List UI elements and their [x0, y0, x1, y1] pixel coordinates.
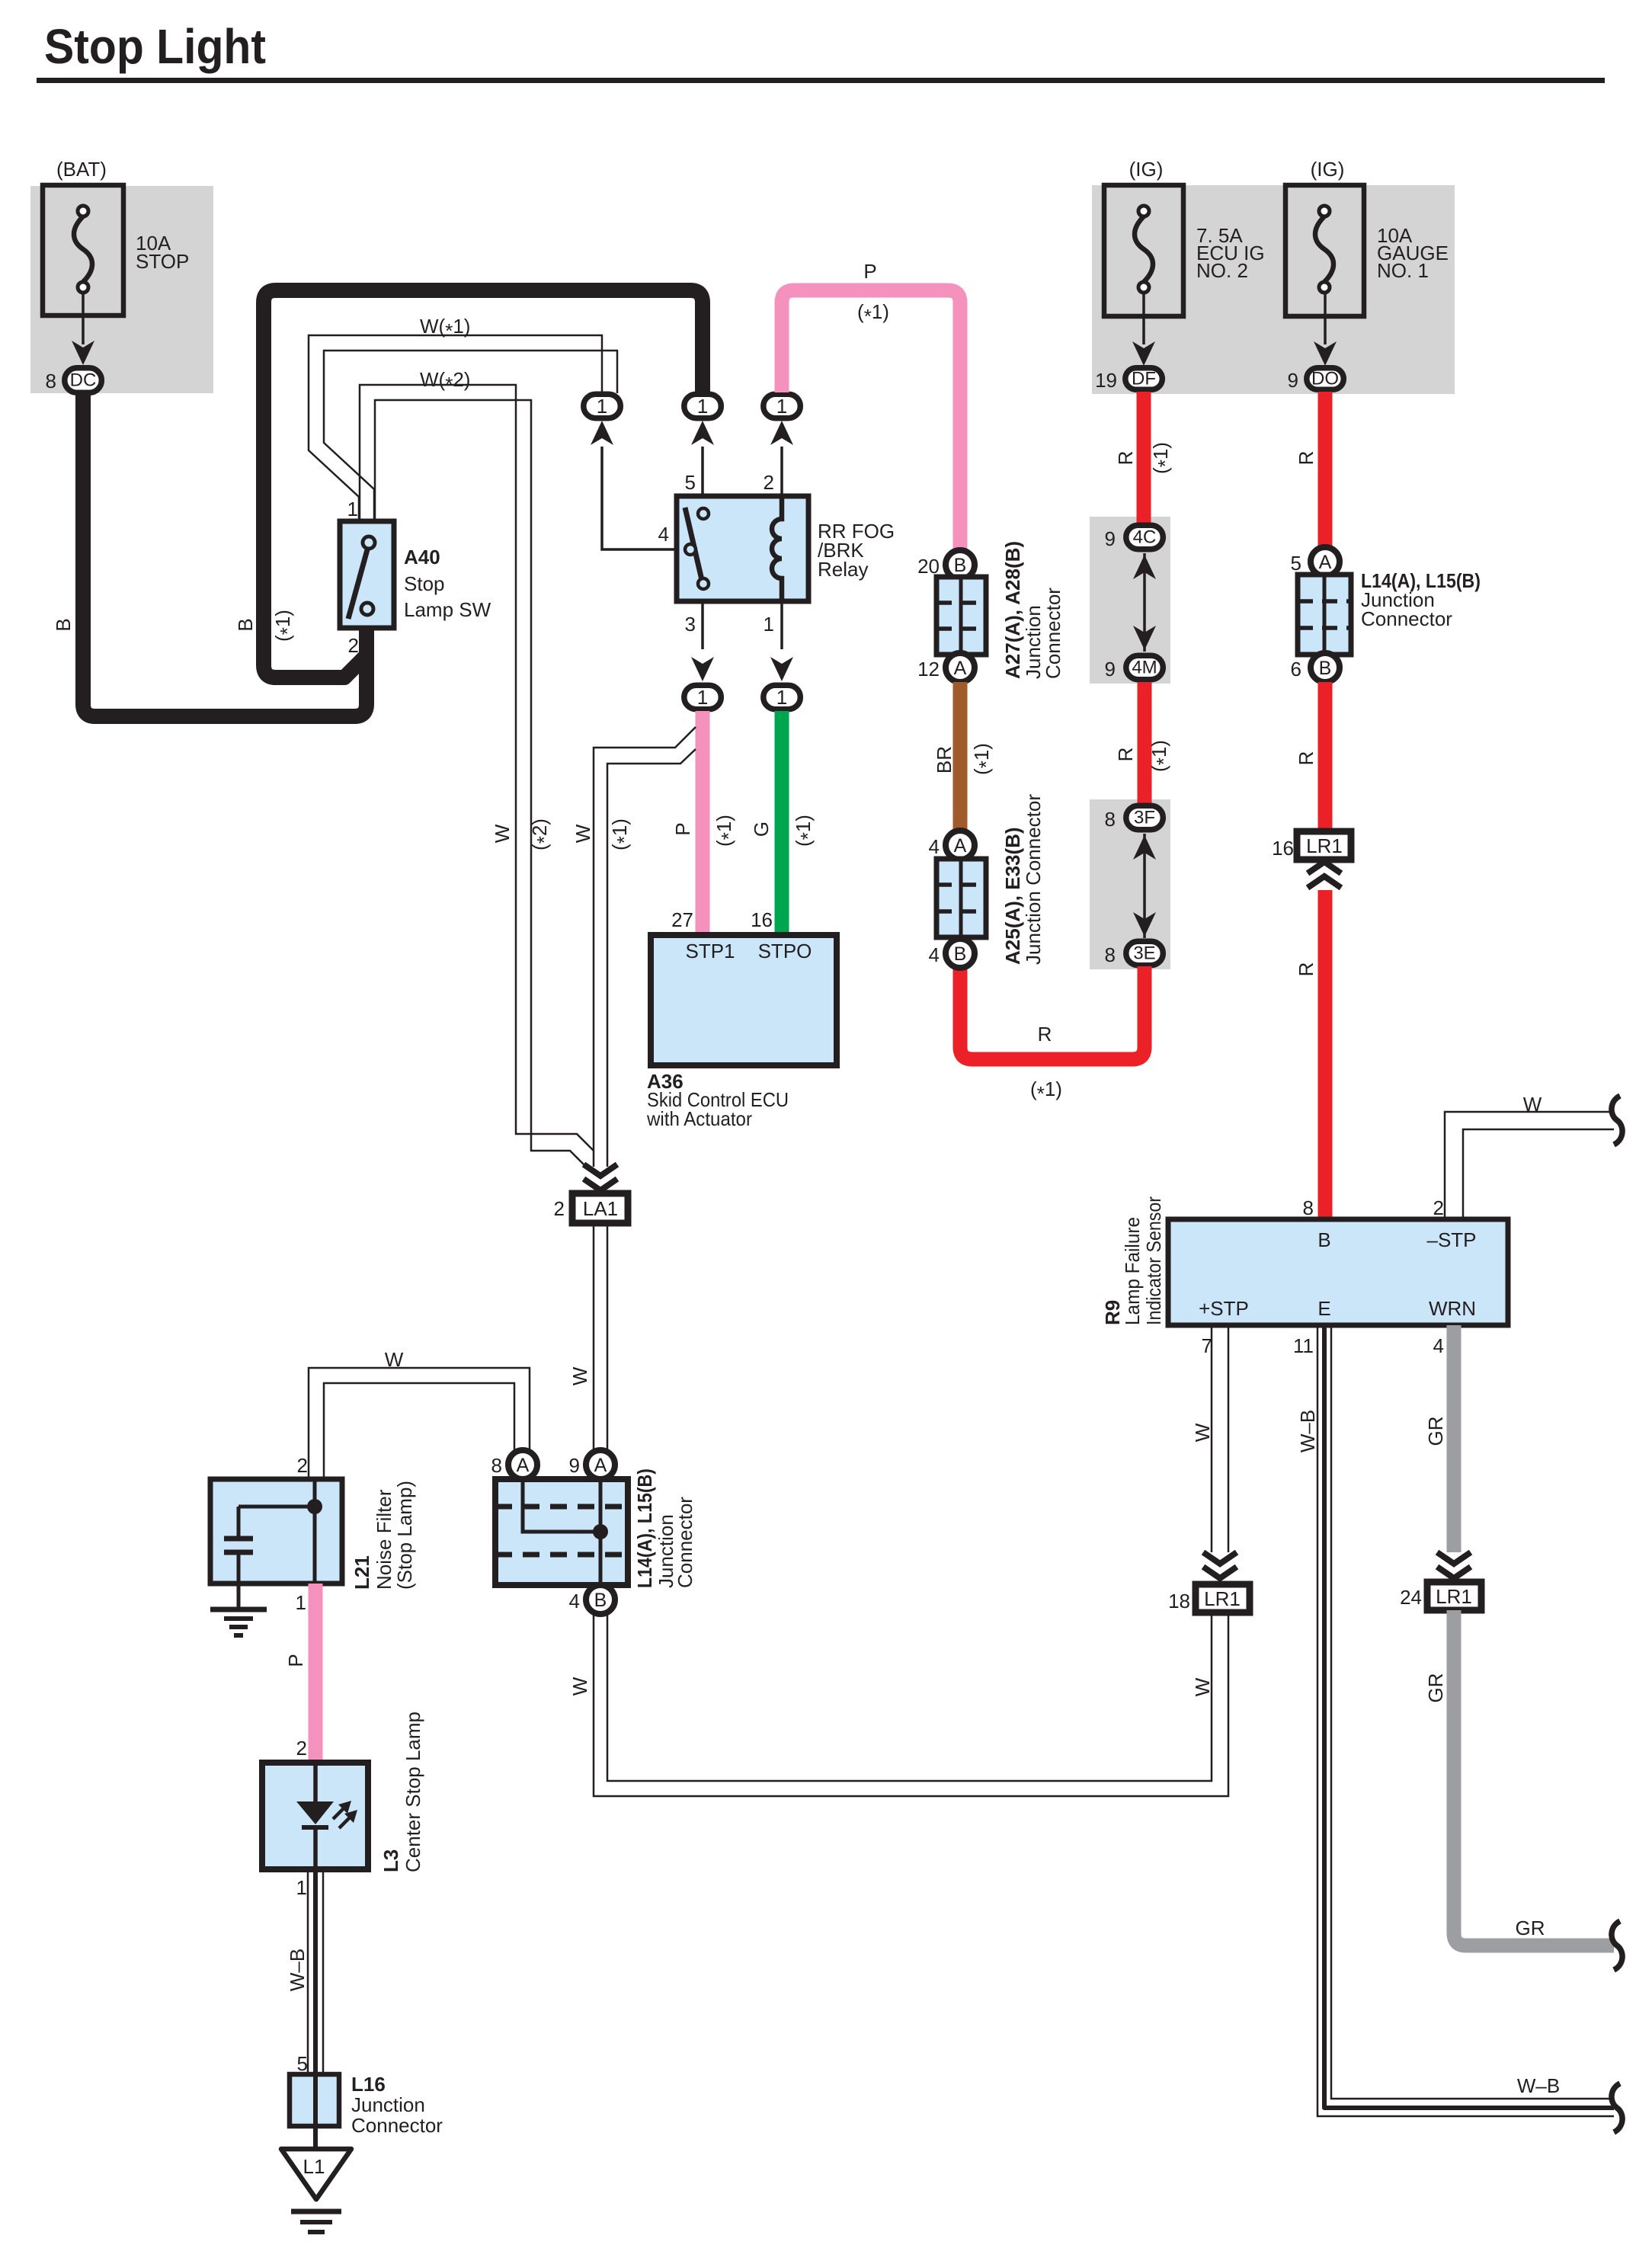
- wire R(*1) 3E to A25 pin B: [960, 966, 1145, 1059]
- svg-text:2: 2: [297, 1454, 308, 1477]
- label A25(A), E33(B) Junction Connector: [1001, 794, 1045, 965]
- svg-text:A: A: [1319, 552, 1332, 573]
- svg-text:A: A: [517, 1455, 530, 1476]
- junction connector A27(A), A28(B): [936, 577, 986, 655]
- svg-text:W: W: [1191, 1423, 1214, 1442]
- wire P(*1) relay pin3 to A36 STP1: [696, 711, 710, 937]
- fuse 10A STOP (BAT): [43, 158, 189, 315]
- label A40 Stop Lamp SW: [404, 546, 491, 621]
- svg-text:W: W: [568, 1677, 591, 1696]
- svg-text:LA1: LA1: [583, 1197, 618, 1220]
- label L14(A), L15(B) Junction Connector: [633, 1468, 696, 1588]
- wire BR(*1) A27 pin A to A25 pin A: [953, 682, 968, 832]
- svg-text:8: 8: [46, 370, 56, 392]
- svg-text:2: 2: [1433, 1196, 1444, 1219]
- svg-text:4C: 4C: [1133, 527, 1157, 548]
- svg-text:L21: L21: [351, 1555, 373, 1590]
- connector LR1 (24): [1427, 1582, 1481, 1610]
- svg-text:Connector: Connector: [674, 1497, 696, 1588]
- svg-text:8: 8: [1105, 943, 1116, 966]
- svg-text:W: W: [571, 824, 594, 843]
- svg-text:24: 24: [1400, 1586, 1422, 1609]
- wire W(*2) A40 pin 1 down to LA1: [360, 385, 594, 1167]
- connector 4M: [1126, 655, 1164, 680]
- svg-text:16: 16: [751, 908, 773, 931]
- svg-text:18: 18: [1168, 1590, 1190, 1612]
- svg-text:(*1): (*1): [1148, 740, 1175, 772]
- svg-text:4: 4: [1433, 1334, 1444, 1357]
- wire GR LR1 24 to right break: [1454, 1610, 1614, 1946]
- ground symbol L21: [210, 1609, 267, 1635]
- svg-text:(Stop Lamp): (Stop Lamp): [393, 1481, 416, 1590]
- svg-text:1: 1: [296, 1876, 307, 1899]
- svg-text:(*1): (*1): [608, 818, 636, 850]
- svg-text:STPO: STPO: [758, 940, 812, 962]
- wire R(*1) 4M to 3F: [1138, 682, 1152, 805]
- wire connector to relay pin 5: [701, 447, 704, 496]
- svg-text:Stop: Stop: [404, 572, 445, 595]
- svg-text:2: 2: [764, 471, 774, 494]
- label L16 Junction Connector: [351, 2073, 443, 2137]
- svg-text:Connector: Connector: [1361, 607, 1452, 630]
- svg-text:W: W: [491, 824, 514, 843]
- svg-text:R: R: [1295, 751, 1317, 766]
- svg-text:Center Stop Lamp: Center Stop Lamp: [402, 1712, 424, 1872]
- svg-text:(IG): (IG): [1129, 158, 1164, 181]
- svg-text:L1: L1: [303, 2155, 325, 2178]
- noise filter L21 (Stop Lamp): [210, 1479, 342, 1608]
- svg-text:3F: 3F: [1134, 808, 1155, 828]
- wire break symbol W: [1612, 1096, 1622, 1145]
- svg-text:4M: 4M: [1132, 658, 1157, 678]
- svg-text:B: B: [954, 555, 967, 576]
- svg-text:LR1: LR1: [1436, 1585, 1472, 1608]
- connector 4C: [1126, 525, 1164, 549]
- svg-text:W: W: [385, 1348, 404, 1371]
- svg-text:R: R: [1114, 451, 1137, 466]
- svg-text:R: R: [1295, 451, 1317, 466]
- svg-text:19: 19: [1095, 369, 1117, 392]
- svg-text:GR: GR: [1516, 1917, 1545, 1939]
- fuse 10A GAUGE NO.1 (IG): [1285, 158, 1449, 316]
- terminal 4B L15: [586, 1585, 615, 1614]
- gray background BAT fuse block: [30, 186, 213, 393]
- svg-text:5: 5: [685, 471, 696, 494]
- wire R L14 pin 6B to LR1: [1318, 682, 1333, 833]
- svg-text:DF: DF: [1132, 369, 1156, 389]
- svg-text:4: 4: [929, 835, 940, 858]
- svg-text:A: A: [594, 1455, 607, 1476]
- svg-text:11: 11: [1293, 1334, 1314, 1357]
- connector DO: [1307, 368, 1344, 390]
- svg-text:Connector: Connector: [1042, 588, 1065, 679]
- svg-text:B: B: [1317, 1228, 1330, 1251]
- junction connector L14(A), L15(B) right: [1298, 575, 1351, 655]
- wire W L21 pin 2 to L14 pin 8A: [309, 1368, 530, 1479]
- svg-text:(BAT): (BAT): [56, 158, 107, 181]
- svg-text:1: 1: [776, 395, 787, 418]
- connector DF: [1125, 368, 1163, 390]
- wire relay pin 1 down: [780, 601, 783, 649]
- svg-text:P: P: [863, 260, 876, 283]
- wire fuse to DO: [1324, 293, 1327, 344]
- svg-text:8: 8: [491, 1454, 502, 1477]
- svg-text:L3: L3: [379, 1849, 402, 1872]
- wire R LR1 to R9 pin 8: [1318, 890, 1333, 1219]
- svg-text:4: 4: [569, 1590, 580, 1612]
- svg-text:(*1): (*1): [857, 300, 889, 328]
- wire R DO to L14 pin 5A: [1318, 392, 1333, 549]
- terminal 9A L14: [586, 1450, 615, 1479]
- junction LR1 chevron up: [1308, 862, 1341, 873]
- svg-text:–STP: –STP: [1426, 1228, 1476, 1251]
- wire L16 to ground L1: [313, 2126, 318, 2151]
- svg-text:DC: DC: [70, 370, 97, 391]
- svg-text:B: B: [594, 1590, 607, 1611]
- terminal A A27/A28: [946, 653, 975, 682]
- svg-text:DO: DO: [1311, 369, 1339, 389]
- relay RR FOG /BRK Relay: [677, 496, 808, 601]
- connector 1: [764, 394, 801, 418]
- junction connector L14(A), L15(B) bottom: [495, 1479, 628, 1585]
- connector 1: [684, 394, 722, 418]
- junction connector L16: [290, 2074, 339, 2126]
- svg-text:1: 1: [764, 613, 774, 636]
- svg-text:B: B: [52, 618, 75, 631]
- connector LA1: [572, 1193, 628, 1223]
- wire W LA1 to 9A: [594, 1223, 607, 1451]
- link 4C to 4M: [1143, 553, 1146, 652]
- junction chevron down LR1 18: [1203, 1552, 1237, 1564]
- svg-text:WRN: WRN: [1429, 1297, 1476, 1320]
- wire GR R9 pin WRN to LR1 (24): [1447, 1325, 1462, 1552]
- svg-text:2: 2: [296, 1737, 307, 1760]
- svg-text:3: 3: [685, 613, 696, 636]
- svg-text:8: 8: [1105, 808, 1116, 831]
- svg-text:A25(A), E33(B): A25(A), E33(B): [1001, 827, 1024, 965]
- svg-text:with Actuator: with Actuator: [646, 1107, 752, 1130]
- svg-text:B: B: [1319, 658, 1332, 679]
- svg-text:1: 1: [697, 686, 708, 709]
- wire W-B R9 pin E to right break: [1317, 1325, 1614, 2116]
- label R9 Lamp Failure Indicator Sensor: [1101, 1196, 1165, 1325]
- svg-text:A: A: [954, 835, 967, 857]
- wire W R9 pin 7 to LR1 (18): [1212, 1325, 1228, 1552]
- wire W LR1 18 down-left to L15 pin 4B: [594, 1614, 1228, 1796]
- svg-text:Junction Connector: Junction Connector: [1022, 794, 1045, 965]
- svg-text:(*1): (*1): [271, 610, 299, 642]
- gray background IG fuse block: [1092, 185, 1455, 394]
- svg-text:+STP: +STP: [1199, 1297, 1249, 1320]
- svg-text:4: 4: [658, 523, 669, 546]
- svg-text:6: 6: [1291, 658, 1301, 681]
- svg-text:STOP: STOP: [136, 250, 189, 273]
- terminal B A25/E33: [946, 939, 975, 968]
- terminal 8A L14: [508, 1450, 537, 1479]
- svg-text:W: W: [1191, 1677, 1214, 1696]
- wire connector to relay pin 2: [780, 447, 783, 496]
- label RR FOG /BRK Relay: [818, 520, 895, 581]
- wire break symbol W-B: [1612, 2083, 1622, 2132]
- terminal A L14/L15 right: [1311, 547, 1340, 576]
- svg-text:BR: BR: [933, 746, 956, 773]
- wire B(*1) (black) A40 pin 2 to relay pin 5 connector: [264, 290, 703, 677]
- wire break symbol GR: [1612, 1921, 1622, 1970]
- svg-text:8: 8: [1303, 1196, 1314, 1219]
- label A27(A), A28(B) Junction Connector: [1001, 541, 1065, 679]
- svg-text:1: 1: [776, 686, 787, 709]
- svg-text:9: 9: [569, 1454, 580, 1477]
- wire relay pin 3 down: [701, 601, 704, 649]
- switch A40 Stop Lamp SW: [340, 521, 394, 628]
- svg-text:W–B: W–B: [1296, 1410, 1319, 1452]
- svg-text:5: 5: [297, 2052, 308, 2075]
- svg-text:3E: 3E: [1133, 943, 1155, 964]
- svg-text:R: R: [1295, 962, 1317, 977]
- svg-text:(*1): (*1): [1149, 442, 1177, 474]
- gray background 4C/4M connector block: [1090, 517, 1170, 684]
- terminal B A27/A28: [946, 550, 975, 579]
- wire W(*1) A40 pin 1 to relay pin 4 connector: [309, 335, 617, 521]
- svg-text:NO. 2: NO. 2: [1196, 259, 1248, 282]
- label L14(A), L15(B) Junction Connector: [1361, 569, 1481, 630]
- wire P L21 to L3: [309, 1584, 323, 1764]
- link 3F to 3E: [1143, 834, 1146, 938]
- svg-text:A27(A), A28(B): A27(A), A28(B): [1001, 541, 1024, 679]
- svg-text:LR1: LR1: [1306, 834, 1343, 857]
- connector 3F: [1126, 805, 1164, 830]
- connector 1: [684, 685, 722, 709]
- label L21 Noise Filter (Stop Lamp): [351, 1481, 416, 1590]
- svg-text:Stop Light: Stop Light: [44, 20, 266, 75]
- svg-text:W–B: W–B: [1517, 2074, 1560, 2097]
- svg-text:(*1): (*1): [1030, 1078, 1062, 1105]
- svg-text:9: 9: [1105, 527, 1116, 550]
- svg-text:9: 9: [1105, 658, 1116, 681]
- svg-text:W: W: [1523, 1093, 1542, 1116]
- svg-text:STP1: STP1: [685, 940, 735, 962]
- svg-text:P: P: [671, 822, 694, 835]
- svg-text:(*1): (*1): [792, 815, 819, 847]
- svg-text:B: B: [954, 943, 967, 965]
- svg-text:B: B: [234, 618, 257, 631]
- svg-text:2: 2: [554, 1197, 565, 1220]
- svg-text:2: 2: [348, 634, 359, 657]
- svg-text:LR1: LR1: [1204, 1587, 1241, 1610]
- svg-text:GR: GR: [1424, 1417, 1447, 1446]
- svg-text:W(*2): W(*2): [420, 368, 470, 396]
- svg-text:5: 5: [1291, 552, 1301, 575]
- svg-text:(IG): (IG): [1311, 158, 1345, 181]
- wire W-B L3 to L16: [308, 1869, 323, 2074]
- wire G(*1) relay pin1 to A36 STPO: [775, 711, 789, 937]
- ECU A36 Skid Control ECU with Actuator: [651, 935, 837, 1065]
- wire R(*1) DF to 4C: [1137, 392, 1151, 524]
- label L3 Center Stop Lamp: [379, 1712, 424, 1872]
- svg-text:Lamp SW: Lamp SW: [404, 598, 491, 621]
- svg-text:12: 12: [917, 658, 940, 681]
- svg-text:E: E: [1317, 1297, 1330, 1320]
- wire connector to relay pin 4: [602, 447, 685, 549]
- lamp L3 Center Stop Lamp (LED): [262, 1763, 368, 1869]
- ground triangle L1: [281, 2149, 351, 2199]
- svg-text:27: 27: [671, 908, 693, 931]
- svg-text:P: P: [284, 1654, 307, 1667]
- svg-text:A40: A40: [404, 546, 440, 568]
- wire fuse to DF: [1142, 293, 1145, 344]
- wire W(*1) branch from pink to LA1: [594, 727, 696, 1167]
- svg-text:L16: L16: [351, 2073, 386, 2096]
- connector LR1 (16): [1297, 831, 1351, 860]
- svg-text:(*1): (*1): [712, 815, 740, 847]
- svg-text:9: 9: [1288, 369, 1298, 392]
- svg-text:NO. 1: NO. 1: [1377, 259, 1429, 282]
- svg-text:W(*1): W(*1): [420, 315, 470, 342]
- svg-text:16: 16: [1272, 837, 1294, 860]
- terminal B L14/L15 right: [1311, 653, 1340, 682]
- svg-text:Relay: Relay: [818, 558, 868, 581]
- svg-text:W: W: [568, 1366, 591, 1385]
- ground symbol L1: [291, 2211, 341, 2232]
- svg-text:1: 1: [697, 395, 708, 418]
- svg-text:4: 4: [929, 943, 940, 966]
- wire P(*1) relay pin2 connector to A27 pin B: [782, 290, 960, 552]
- junction chevron down LR1 24: [1437, 1552, 1471, 1564]
- svg-text:(*1): (*1): [970, 743, 997, 775]
- terminal A A25/E33: [946, 831, 975, 860]
- connector LR1 (18): [1196, 1584, 1250, 1612]
- connector 3E: [1126, 941, 1164, 966]
- gray background 3F/3E connector block: [1090, 799, 1170, 969]
- svg-text:A: A: [954, 658, 967, 679]
- svg-text:1: 1: [597, 395, 607, 418]
- svg-text:R: R: [1114, 748, 1137, 762]
- svg-text:1: 1: [347, 498, 358, 520]
- connector 1: [584, 394, 621, 418]
- svg-text:W–B: W–B: [286, 1949, 309, 1991]
- wire fuse to DC: [82, 293, 85, 344]
- svg-text:G: G: [750, 821, 773, 837]
- svg-text:R: R: [1038, 1023, 1052, 1046]
- svg-text:Lamp Failure: Lamp Failure: [1121, 1217, 1144, 1325]
- svg-text:1: 1: [296, 1591, 306, 1614]
- svg-text:L14(A), L15(B): L14(A), L15(B): [633, 1468, 656, 1588]
- svg-text:Indicator Sensor: Indicator Sensor: [1142, 1196, 1165, 1325]
- label A36 Skid Control ECU with Actuator: [646, 1070, 789, 1130]
- svg-text:(*2): (*2): [528, 818, 555, 850]
- junction LA1 chevron: [584, 1164, 617, 1176]
- connector DC: [65, 368, 102, 393]
- fuse 7.5A ECU IG NO.2 (IG): [1104, 158, 1265, 316]
- svg-text:Connector: Connector: [351, 2114, 443, 2137]
- sensor R9 Lamp Failure Indicator Sensor: [1168, 1219, 1508, 1325]
- junction connector A25(A), E33(B): [936, 859, 986, 937]
- svg-text:GR: GR: [1424, 1673, 1447, 1703]
- svg-text:Junction: Junction: [351, 2093, 425, 2116]
- wire W R9 pin 2 to right break: [1445, 1112, 1614, 1219]
- connector 1: [764, 685, 801, 709]
- svg-text:Noise Filter: Noise Filter: [373, 1489, 395, 1590]
- wire B (black) DC to A40 pin 2: [83, 394, 367, 716]
